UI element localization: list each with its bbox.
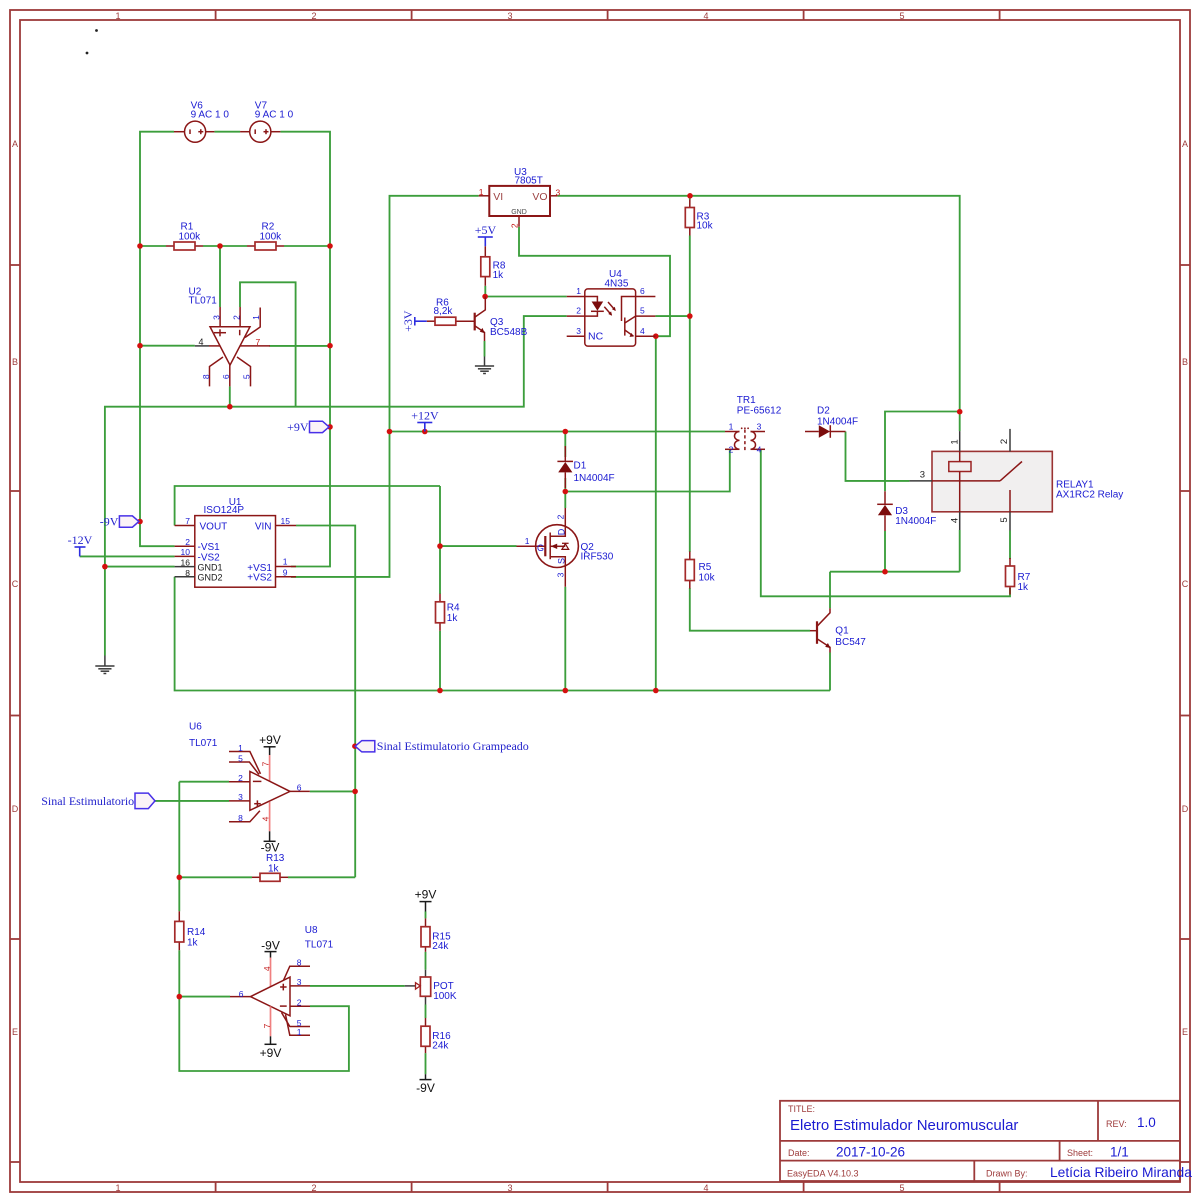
- svg-text:1N4004F: 1N4004F: [574, 473, 615, 484]
- svg-text:1k: 1k: [493, 270, 505, 281]
- svg-text:1: 1: [576, 286, 581, 296]
- svg-text:C: C: [12, 579, 19, 589]
- svg-text:GND2: GND2: [198, 573, 223, 583]
- svg-text:U6: U6: [189, 722, 202, 733]
- svg-text:+5V: +5V: [475, 223, 497, 237]
- svg-text:2: 2: [297, 998, 302, 1008]
- svg-text:+9V: +9V: [287, 420, 309, 434]
- svg-text:1: 1: [729, 422, 734, 432]
- svg-text:10: 10: [181, 547, 191, 557]
- svg-text:7: 7: [185, 516, 190, 526]
- svg-text:-12V: -12V: [68, 533, 93, 547]
- svg-text:R14: R14: [187, 927, 206, 938]
- svg-text:8: 8: [201, 374, 211, 379]
- svg-text:BC548B: BC548B: [490, 327, 528, 338]
- svg-text:VI: VI: [493, 191, 503, 203]
- svg-text:4: 4: [640, 326, 645, 336]
- svg-text:7: 7: [256, 337, 261, 347]
- svg-text:Sheet:: Sheet:: [1067, 1148, 1093, 1158]
- svg-text:6: 6: [297, 783, 302, 793]
- svg-text:TL071: TL071: [189, 296, 218, 307]
- svg-text:U8: U8: [305, 925, 318, 936]
- svg-text:24k: 24k: [432, 941, 449, 952]
- svg-text:5: 5: [899, 11, 904, 21]
- svg-text:2: 2: [729, 445, 734, 455]
- svg-text:7: 7: [262, 1023, 272, 1028]
- svg-text:2: 2: [231, 315, 241, 320]
- svg-text:A: A: [1182, 139, 1188, 149]
- svg-text:D: D: [12, 804, 19, 814]
- svg-text:5: 5: [241, 374, 251, 379]
- svg-text:E: E: [12, 1027, 18, 1037]
- svg-text:16: 16: [181, 558, 191, 568]
- svg-text:4N35: 4N35: [605, 279, 629, 290]
- svg-text:1: 1: [297, 1027, 302, 1037]
- svg-text:3: 3: [556, 572, 566, 577]
- svg-text:REV:: REV:: [1106, 1119, 1127, 1129]
- svg-text:10k: 10k: [699, 573, 716, 584]
- svg-text:4: 4: [261, 816, 271, 821]
- svg-text:2: 2: [311, 1183, 316, 1193]
- svg-text:4: 4: [199, 337, 204, 347]
- svg-text:Sinal Estimulatorio: Sinal Estimulatorio: [41, 794, 134, 808]
- svg-text:-9V: -9V: [261, 939, 280, 953]
- svg-text:1: 1: [115, 1183, 120, 1193]
- svg-text:2: 2: [311, 11, 316, 21]
- svg-text:5: 5: [899, 1183, 904, 1193]
- svg-text:G: G: [537, 543, 544, 553]
- svg-text:1: 1: [251, 315, 261, 320]
- svg-text:1/1: 1/1: [1110, 1145, 1129, 1160]
- svg-text:VOUT: VOUT: [200, 521, 228, 532]
- svg-text:100k: 100k: [260, 232, 283, 243]
- svg-text:+12V: +12V: [411, 409, 439, 423]
- svg-text:TITLE:: TITLE:: [788, 1104, 815, 1114]
- svg-text:7805T: 7805T: [515, 176, 543, 187]
- svg-text:100K: 100K: [433, 991, 457, 1002]
- svg-text:NC: NC: [588, 331, 604, 343]
- svg-text:-9V: -9V: [100, 514, 119, 528]
- svg-text:4: 4: [950, 518, 961, 523]
- svg-text:VO: VO: [532, 191, 547, 203]
- svg-text:+VS2: +VS2: [247, 573, 272, 584]
- svg-text:+9V: +9V: [260, 1046, 282, 1060]
- svg-text:8: 8: [185, 568, 190, 578]
- svg-text:6: 6: [239, 989, 244, 999]
- svg-text:9 AC 1 0: 9 AC 1 0: [255, 110, 294, 121]
- svg-text:R13: R13: [266, 853, 285, 864]
- svg-text:IRF530: IRF530: [581, 552, 614, 563]
- svg-text:4: 4: [757, 445, 762, 455]
- svg-text:ISO124P: ISO124P: [204, 505, 245, 516]
- svg-text:2: 2: [999, 439, 1010, 444]
- svg-text:2017-10-26: 2017-10-26: [836, 1145, 905, 1160]
- svg-text:PE-65612: PE-65612: [737, 406, 782, 417]
- svg-text:1N4004F: 1N4004F: [895, 516, 936, 527]
- svg-text:C: C: [1182, 579, 1189, 589]
- svg-text:D2: D2: [817, 406, 830, 417]
- svg-text:1: 1: [525, 536, 530, 546]
- svg-text:TR1: TR1: [737, 395, 756, 406]
- svg-text:EasyEDA V4.10.3: EasyEDA V4.10.3: [787, 1169, 859, 1179]
- svg-text:D: D: [557, 528, 567, 535]
- svg-text:1k: 1k: [268, 864, 280, 875]
- svg-text:3: 3: [920, 470, 925, 481]
- svg-text:1: 1: [950, 439, 961, 444]
- svg-text:6: 6: [640, 286, 645, 296]
- svg-text:5: 5: [999, 517, 1010, 522]
- svg-text:8: 8: [238, 813, 243, 823]
- svg-text:Letícia Ribeiro Miranda: Letícia Ribeiro Miranda: [1050, 1165, 1192, 1180]
- svg-text:TL071: TL071: [305, 940, 334, 951]
- svg-text:1N4004F: 1N4004F: [817, 417, 858, 428]
- svg-text:VIN: VIN: [255, 521, 272, 532]
- svg-text:Date:: Date:: [788, 1148, 810, 1158]
- svg-text:R5: R5: [699, 562, 712, 573]
- svg-text:4: 4: [703, 11, 708, 21]
- svg-text:GND1: GND1: [198, 563, 223, 573]
- svg-text:10k: 10k: [697, 221, 714, 232]
- svg-text:+9V: +9V: [259, 733, 281, 747]
- svg-text:9 AC 1 0: 9 AC 1 0: [191, 110, 230, 121]
- svg-text:3: 3: [507, 1183, 512, 1193]
- svg-text:D1: D1: [574, 461, 587, 472]
- svg-text:1.0: 1.0: [1137, 1115, 1156, 1130]
- svg-text:+3V: +3V: [401, 310, 415, 332]
- svg-text:1k: 1k: [447, 613, 459, 624]
- svg-text:3: 3: [212, 315, 222, 320]
- svg-text:-9V: -9V: [416, 1081, 435, 1095]
- svg-text:D: D: [1182, 804, 1189, 814]
- svg-text:5: 5: [640, 306, 645, 316]
- svg-text:15: 15: [281, 516, 291, 526]
- svg-text:7: 7: [261, 761, 271, 766]
- svg-text:2: 2: [510, 223, 520, 228]
- svg-text:+9V: +9V: [415, 888, 437, 902]
- svg-text:AX1RC2 Relay: AX1RC2 Relay: [1056, 490, 1123, 501]
- svg-text:8,2k: 8,2k: [434, 306, 454, 317]
- svg-text:8: 8: [297, 958, 302, 968]
- svg-text:Q1: Q1: [835, 626, 849, 637]
- svg-text:3: 3: [238, 792, 243, 802]
- svg-text:6: 6: [221, 374, 231, 379]
- svg-text:3: 3: [297, 977, 302, 987]
- svg-text:9: 9: [283, 568, 288, 578]
- svg-text:3: 3: [556, 188, 561, 198]
- svg-text:Eletro Estimulador Neuromuscul: Eletro Estimulador Neuromuscular: [790, 1117, 1018, 1134]
- svg-text:R4: R4: [447, 603, 460, 614]
- svg-text:1: 1: [283, 557, 288, 567]
- svg-text:2: 2: [185, 537, 190, 547]
- svg-text:BC547: BC547: [835, 637, 866, 648]
- svg-text:Sinal Estimulatorio Grampeado: Sinal Estimulatorio Grampeado: [377, 739, 529, 753]
- svg-text:2: 2: [238, 773, 243, 783]
- svg-text:3: 3: [576, 326, 581, 336]
- svg-text:1: 1: [238, 743, 243, 753]
- svg-text:1k: 1k: [1018, 582, 1030, 593]
- svg-text:2: 2: [576, 306, 581, 316]
- svg-text:A: A: [12, 139, 18, 149]
- svg-text:5: 5: [238, 753, 243, 763]
- svg-text:3: 3: [507, 11, 512, 21]
- svg-text:100k: 100k: [179, 232, 202, 243]
- svg-text:4: 4: [703, 1183, 708, 1193]
- svg-text:GND: GND: [511, 209, 527, 216]
- svg-text:2: 2: [556, 514, 566, 519]
- svg-text:4: 4: [262, 966, 272, 971]
- svg-text:24k: 24k: [432, 1041, 449, 1052]
- svg-text:1: 1: [115, 11, 120, 21]
- svg-text:B: B: [12, 357, 18, 367]
- svg-text:TL071: TL071: [189, 738, 218, 749]
- svg-text:S: S: [557, 558, 567, 564]
- svg-text:3: 3: [757, 422, 762, 432]
- svg-text:B: B: [1182, 357, 1188, 367]
- svg-text:Drawn By:: Drawn By:: [986, 1169, 1028, 1179]
- svg-text:1: 1: [479, 187, 484, 197]
- svg-text:1k: 1k: [187, 938, 199, 949]
- svg-text:E: E: [1182, 1027, 1188, 1037]
